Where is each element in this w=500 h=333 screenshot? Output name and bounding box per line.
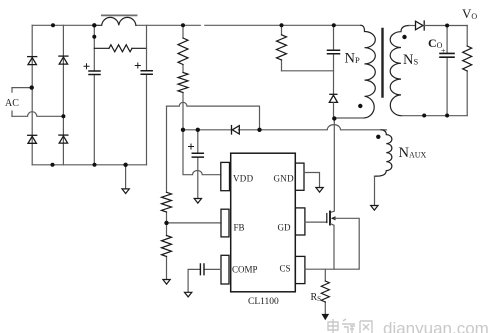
wire VDD branch to pin bbox=[183, 130, 221, 175]
resistor R8 Rs sense bbox=[324, 269, 326, 314]
wire FB tap to pin bbox=[167, 222, 222, 224]
resistor R3 startup lower bbox=[178, 73, 188, 93]
ground VDD cap bbox=[194, 199, 201, 204]
diode D5 VDD rectifier bbox=[232, 126, 240, 134]
pin VDD box bbox=[221, 162, 230, 190]
node dot VDD cap bbox=[196, 128, 200, 132]
pin FB box bbox=[221, 209, 229, 237]
node dot snubber C top bbox=[332, 23, 336, 27]
wire bottom rail bbox=[32, 164, 146, 166]
node dot snubber R top bbox=[280, 23, 284, 27]
transistor Q1 MOSFET symbol bbox=[327, 212, 330, 225]
wire clamp to primary bottom bbox=[333, 102, 335, 118]
svg-text:CS: CS bbox=[280, 264, 291, 274]
ground bottom rail bbox=[125, 165, 127, 189]
transistor Q1 source wire bbox=[331, 224, 334, 269]
wire VDD rail y130 bbox=[183, 125, 387, 130]
svg-text:COMP: COMP bbox=[232, 265, 258, 275]
node dot top rail A bbox=[51, 23, 55, 27]
pin GD box bbox=[295, 208, 305, 235]
resistor R5 FB lower bbox=[162, 236, 172, 257]
wire AC bottom with hop over leg1 bbox=[12, 112, 63, 117]
wire snubber R top bbox=[281, 25, 283, 71]
transformer core bbox=[381, 29, 383, 97]
node dot cap1 second bbox=[92, 35, 96, 39]
wire MOSFET drain bbox=[331, 119, 335, 213]
wire top rail mid bbox=[136, 24, 361, 26]
wire bridge leg 1 bbox=[31, 25, 33, 165]
node dot bottom rail gnd bbox=[123, 163, 127, 167]
svg-text:CL1100: CL1100 bbox=[248, 297, 279, 307]
plus sign C1 bbox=[84, 64, 89, 69]
node dot bottom rail 2 bbox=[93, 163, 97, 167]
pin CS box bbox=[295, 256, 305, 283]
wire FB divider chain bbox=[166, 106, 168, 279]
capacitor C6 plates bbox=[440, 53, 454, 57]
svg-text:GND: GND bbox=[274, 174, 295, 184]
wire bridge leg 2 bbox=[62, 25, 64, 165]
svg-text:AC: AC bbox=[5, 98, 19, 109]
wire snubber bottom link bbox=[282, 70, 334, 72]
wire primary bottom bbox=[334, 117, 364, 119]
resistor R4 FB upper bbox=[162, 192, 172, 212]
ground GND pin bbox=[316, 188, 323, 193]
wire top rail left bbox=[32, 24, 94, 26]
diode D7 output bbox=[416, 21, 425, 30]
diode D1 bridge upper-left bbox=[28, 57, 37, 65]
node dot AC bottom bbox=[61, 114, 65, 118]
resistor R7 load bbox=[466, 26, 468, 116]
capacitor C6 output wire bbox=[446, 26, 448, 116]
wire output bottom bbox=[402, 115, 468, 117]
node dot output bottom 1 bbox=[422, 114, 426, 118]
plus sign C2 bbox=[135, 63, 140, 68]
node dot polarity Np bbox=[358, 104, 362, 108]
svg-text:VO: VO bbox=[462, 6, 477, 21]
diode D3 bridge lower-left bbox=[28, 135, 37, 143]
inductor L1 bbox=[94, 17, 136, 25]
svg-text:FB: FB bbox=[234, 223, 245, 233]
wire FB sense from aux node bbox=[167, 102, 260, 130]
watermark CJK 电源网 bbox=[328, 319, 372, 333]
node dot polarity Ns bbox=[402, 35, 406, 39]
svg-text:dianyuan.com: dianyuan.com bbox=[383, 319, 489, 333]
node dot bottom rail 1 bbox=[51, 163, 55, 167]
inductor L1 core bar bbox=[102, 14, 137, 16]
diode D2 bridge upper-right bbox=[59, 56, 68, 64]
svg-text:+: + bbox=[441, 47, 446, 56]
node dot FB tap bbox=[164, 221, 168, 225]
capacitor C1 plates bbox=[89, 71, 100, 75]
wire CS pin bbox=[305, 268, 359, 270]
pin GND box bbox=[295, 163, 304, 190]
node dot primary bottom bbox=[332, 116, 336, 120]
capacitor C3 plates bbox=[192, 153, 203, 157]
wire output top bbox=[424, 25, 467, 27]
resistor R6 snubber bbox=[277, 35, 287, 60]
resistor R2 startup upper bbox=[182, 25, 184, 130]
ground aux bbox=[371, 206, 378, 211]
wire GND pin to ground bbox=[304, 173, 320, 188]
node dot output bottom 2 bbox=[445, 114, 449, 118]
pin COMP box bbox=[221, 255, 229, 284]
wire AC top bbox=[12, 87, 32, 89]
diode D6 clamp bbox=[329, 94, 337, 102]
svg-text:RS: RS bbox=[311, 292, 322, 303]
capacitor C5 snubber wire bbox=[333, 25, 335, 94]
wire COMP to cap bbox=[188, 269, 221, 292]
node dot startup R top bbox=[181, 23, 185, 27]
capacitor C2 plates bbox=[141, 71, 152, 75]
capacitor C3 VDD wire bbox=[197, 130, 199, 199]
capacitor C4 COMP plates bbox=[200, 264, 204, 275]
diode D4 bridge lower-right bbox=[59, 135, 68, 143]
svg-text:NS: NS bbox=[403, 52, 418, 68]
resistor R1 filter parallel bbox=[94, 47, 146, 49]
svg-text:NAUX: NAUX bbox=[399, 145, 427, 161]
transformer secondary Ns winding bbox=[390, 26, 409, 116]
node dot aux sense bbox=[257, 128, 261, 132]
node dot cap1 top bbox=[92, 23, 96, 27]
capacitor C1 branch wire bbox=[93, 25, 95, 165]
transformer primary Np winding bbox=[361, 25, 375, 118]
node dot polarity Naux bbox=[376, 135, 380, 139]
wire body tie right loop bbox=[335, 218, 360, 268]
transistor Q1 body arrow bbox=[331, 216, 336, 220]
ground Rs bbox=[323, 315, 329, 320]
more sections appended below bbox=[185, 21, 472, 319]
node dot output cap top bbox=[445, 24, 449, 28]
wire aux to ground bbox=[374, 176, 376, 205]
svg-text:VDD: VDD bbox=[233, 174, 254, 184]
node dot VDD chain bbox=[181, 128, 185, 132]
ground FB divider bbox=[163, 280, 170, 285]
transistor Q1 gate wire bbox=[305, 221, 327, 223]
AC source bracket bbox=[11, 88, 13, 117]
svg-text:GD: GD bbox=[278, 223, 291, 233]
ground COMP cap bbox=[185, 292, 192, 297]
svg-text:NP: NP bbox=[345, 51, 360, 67]
op-amp U1 IC box CL1100 bbox=[231, 153, 296, 292]
capacitor C5 plates bbox=[328, 50, 340, 53]
wire secondary top to diode bbox=[409, 25, 415, 27]
capacitor C2 branch wire bbox=[146, 25, 148, 165]
node dot AC top bbox=[30, 85, 34, 89]
transformer aux Naux winding bbox=[375, 130, 392, 176]
plus sign C3 bbox=[189, 144, 194, 149]
